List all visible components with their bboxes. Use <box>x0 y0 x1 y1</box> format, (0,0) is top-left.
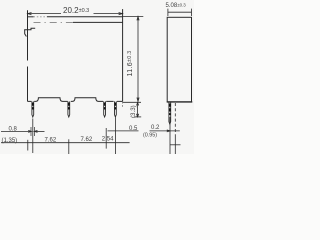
svg-text:(3.3): (3.3) <box>130 105 137 118</box>
pin 4 <box>115 101 117 117</box>
svg-text:0.5: 0.5 <box>129 126 138 132</box>
svg-text:0.2: 0.2 <box>151 125 160 131</box>
left edge step detail <box>24 28 35 30</box>
right view top dimension 5.08 <box>168 9 192 16</box>
height dimension 11.6 <box>123 16 144 101</box>
lower right dimension line <box>170 144 181 146</box>
svg-text:20.2±0.3: 20.2±0.3 <box>63 6 89 15</box>
pin length dimension (3.3) <box>123 102 142 117</box>
left view: left edge with upward extension <box>27 10 29 60</box>
bottom extension lines <box>28 117 170 154</box>
stub below left box right corner <box>122 102 124 108</box>
main bottom dimension line <box>1 142 130 144</box>
svg-text:7.62: 7.62 <box>45 137 57 143</box>
bottom edge with humps <box>28 98 123 102</box>
svg-text:2.54: 2.54 <box>102 137 114 143</box>
left view: right edge with upward extension <box>122 9 124 101</box>
svg-text:(1.35): (1.35) <box>2 138 18 144</box>
pin 3 <box>104 101 106 117</box>
right view pin <box>169 102 171 124</box>
hidden pin line dashed <box>174 103 176 136</box>
svg-text:0.8: 0.8 <box>9 127 18 133</box>
internal seam line <box>73 21 123 23</box>
0.5 dimension <box>108 130 139 132</box>
svg-text:(0.95): (0.95) <box>143 133 157 139</box>
pin 2 <box>68 101 70 117</box>
svg-text:7.62: 7.62 <box>81 137 93 143</box>
svg-text:11.6±0.3: 11.6±0.3 <box>127 51 134 77</box>
left view: case top edge <box>28 16 34 18</box>
0.2 dimension <box>150 130 180 132</box>
top dimension 20.2 <box>28 13 123 15</box>
right view <box>167 17 193 102</box>
pin 1 <box>32 101 34 117</box>
0.8 pin width dimension <box>1 130 45 132</box>
